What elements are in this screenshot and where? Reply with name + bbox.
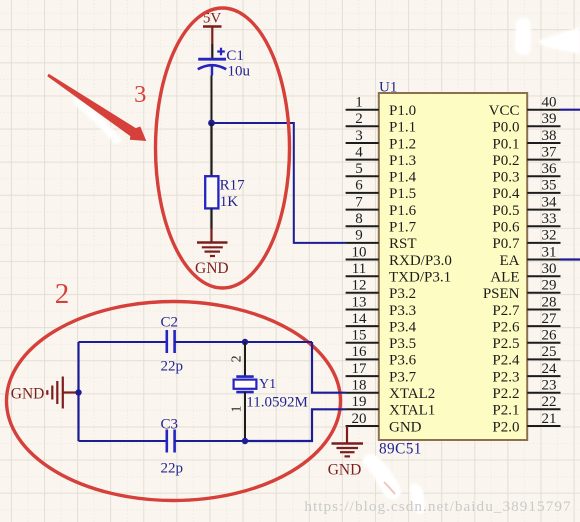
wire R17 to ground xyxy=(210,208,212,230)
U1 pin 30 (ALE) xyxy=(490,261,560,286)
svg-text:29: 29 xyxy=(542,278,557,294)
svg-text:38: 38 xyxy=(542,128,557,144)
svg-text:36: 36 xyxy=(542,161,558,177)
svg-text:2: 2 xyxy=(355,111,363,127)
svg-text:9: 9 xyxy=(355,228,363,244)
svg-text:RXD/P3.0: RXD/P3.0 xyxy=(389,253,452,269)
svg-text:3: 3 xyxy=(134,81,146,108)
node crystal top xyxy=(242,339,248,345)
svg-text:EA: EA xyxy=(500,253,520,269)
wire node A to R17 xyxy=(210,123,212,176)
svg-text:P1.2: P1.2 xyxy=(389,136,416,152)
svg-text:P0.7: P0.7 xyxy=(492,236,520,252)
wire top rail left xyxy=(79,341,167,343)
svg-text:P3.6: P3.6 xyxy=(389,353,417,369)
svg-text:P0.0: P0.0 xyxy=(492,120,519,136)
wire bottom rail left xyxy=(79,440,167,442)
U1 pin 31 (EA) xyxy=(500,244,561,269)
U1 pin 18 (XTAL2) xyxy=(346,378,436,403)
svg-text:P0.3: P0.3 xyxy=(492,170,519,186)
U1 pin 27 (P2.6) xyxy=(492,311,560,336)
wire crystal top lead xyxy=(244,342,246,376)
U1 pin 21 (P2.0) xyxy=(492,411,560,436)
svg-text:6: 6 xyxy=(355,178,363,194)
svg-text:22p: 22p xyxy=(161,358,184,374)
wire crystal bottom lead xyxy=(244,392,246,441)
wire bottom rail right xyxy=(175,440,245,442)
U1 pin 28 (P2.7) xyxy=(492,294,560,319)
U1 pin 2 (P1.1) xyxy=(346,111,416,136)
capacitor C3 22p xyxy=(161,417,184,477)
wire EA pin 31 xyxy=(561,258,580,260)
IC U1 89C51 body xyxy=(379,93,527,440)
svg-text:11.0592M: 11.0592M xyxy=(246,394,308,410)
U1 pin 24 (P2.3) xyxy=(492,361,560,386)
svg-text:P0.6: P0.6 xyxy=(492,220,520,236)
svg-text:GND: GND xyxy=(328,461,362,478)
svg-text:4: 4 xyxy=(355,144,363,160)
U1 pin 37 (P0.2) xyxy=(492,144,560,169)
svg-text:P1.4: P1.4 xyxy=(389,170,417,186)
svg-text:7: 7 xyxy=(355,194,363,210)
svg-text:P0.2: P0.2 xyxy=(492,153,519,169)
ground GND (left power ground) xyxy=(11,377,79,409)
svg-text:PSEN: PSEN xyxy=(483,286,520,302)
white highlight bottom arrow xyxy=(362,454,424,514)
U1 pin 23 (P2.2) xyxy=(492,378,560,403)
U1 pin 22 (P2.1) xyxy=(492,394,560,419)
svg-text:10u: 10u xyxy=(228,64,251,80)
svg-text:P1.6: P1.6 xyxy=(389,203,417,219)
U1 pin 9 (RST) xyxy=(346,228,417,253)
svg-text:24: 24 xyxy=(542,361,558,377)
svg-text:P0.5: P0.5 xyxy=(492,203,519,219)
U1 pin 12 (P3.2) xyxy=(346,278,416,303)
U1 pin 36 (P0.3) xyxy=(492,161,560,186)
node crystal bottom xyxy=(242,438,248,444)
U1 pin 29 (PSEN) xyxy=(483,278,561,303)
node A junction xyxy=(208,120,215,127)
U1 pin 3 (P1.2) xyxy=(346,128,416,153)
U1 pin 7 (P1.6) xyxy=(346,194,417,219)
svg-text:P1.0: P1.0 xyxy=(389,103,416,119)
svg-text:P1.1: P1.1 xyxy=(389,120,416,136)
svg-text:23: 23 xyxy=(542,378,557,394)
U1 pin 34 (P0.5) xyxy=(492,194,560,219)
svg-text:P1.7: P1.7 xyxy=(389,220,417,236)
svg-text:P3.2: P3.2 xyxy=(389,286,416,302)
svg-text:P2.7: P2.7 xyxy=(492,303,520,319)
svg-text:31: 31 xyxy=(542,244,557,260)
svg-text:28: 28 xyxy=(542,294,557,310)
svg-text:P2.4: P2.4 xyxy=(492,353,520,369)
svg-text:39: 39 xyxy=(542,111,557,127)
svg-text:35: 35 xyxy=(542,178,557,194)
U1 pin 13 (P3.3) xyxy=(346,294,416,319)
svg-text:GND: GND xyxy=(11,385,45,402)
U1 pin 10 (RXD/P3.0) xyxy=(346,244,452,269)
svg-text:2: 2 xyxy=(55,278,70,310)
svg-text:5: 5 xyxy=(355,161,363,177)
U1 pin 5 (P1.4) xyxy=(346,161,417,186)
ground GND (pin 20) xyxy=(328,426,363,478)
svg-text:11: 11 xyxy=(352,261,366,277)
svg-text:25: 25 xyxy=(542,344,557,360)
svg-text:C1: C1 xyxy=(226,48,244,64)
svg-text:GND: GND xyxy=(195,260,229,277)
annotation white swoosh xyxy=(77,101,117,140)
wire C1 to node A xyxy=(211,76,213,124)
U1 pin 8 (P1.7) xyxy=(346,211,417,236)
svg-text:P0.1: P0.1 xyxy=(492,136,519,152)
svg-text:27: 27 xyxy=(542,311,558,327)
U1 pin 20 (GND) xyxy=(346,411,422,436)
U1 pin 39 (P0.0) xyxy=(492,111,560,136)
U1 pin 25 (P2.4) xyxy=(492,344,560,369)
svg-text:https://blog.csdn.net/baidu_38: https://blog.csdn.net/baidu_38915797 xyxy=(304,498,571,515)
svg-text:P2.5: P2.5 xyxy=(492,336,519,352)
svg-text:1: 1 xyxy=(230,406,245,413)
orange dash in arrow xyxy=(384,482,395,494)
svg-text:2: 2 xyxy=(230,355,245,362)
svg-text:XTAL1: XTAL1 xyxy=(389,403,435,419)
svg-text:RST: RST xyxy=(389,236,417,252)
resistor R17 1K xyxy=(205,176,245,210)
svg-text:P3.5: P3.5 xyxy=(389,336,416,352)
U1 pin 6 (P1.5) xyxy=(346,178,416,203)
svg-text:10: 10 xyxy=(352,244,367,260)
svg-text:16: 16 xyxy=(352,344,368,360)
svg-text:1K: 1K xyxy=(220,194,239,210)
svg-text:P2.0: P2.0 xyxy=(492,419,519,435)
U1 pin 35 (P0.4) xyxy=(492,178,560,203)
svg-text:26: 26 xyxy=(542,328,558,344)
wire 5V to C1 xyxy=(211,44,213,58)
svg-text:13: 13 xyxy=(352,294,367,310)
wire node A to RST corner xyxy=(212,123,346,243)
svg-text:22: 22 xyxy=(542,394,557,410)
svg-text:TXD/P3.1: TXD/P3.1 xyxy=(389,270,451,286)
svg-text:12: 12 xyxy=(352,278,367,294)
U1 pin 26 (P2.5) xyxy=(492,328,560,353)
svg-text:21: 21 xyxy=(542,411,557,427)
wire left riser xyxy=(77,342,79,441)
U1 pin 16 (P3.6) xyxy=(346,344,417,369)
U1 pin 17 (P3.7) xyxy=(346,361,417,386)
svg-text:19: 19 xyxy=(352,394,367,410)
U1 pin 33 (P0.6) xyxy=(492,211,560,236)
svg-text:P3.4: P3.4 xyxy=(389,319,417,335)
U1 pin 14 (P3.4) xyxy=(346,311,417,336)
U1 pin 4 (P1.3) xyxy=(346,144,416,169)
svg-text:P0.4: P0.4 xyxy=(492,186,520,202)
svg-text:3: 3 xyxy=(355,128,363,144)
node GND junction xyxy=(75,389,81,395)
annotation red arrow xyxy=(47,74,146,141)
U1 pin 40 (VCC) xyxy=(489,95,561,120)
svg-text:33: 33 xyxy=(542,211,557,227)
svg-text:C2: C2 xyxy=(161,315,179,331)
svg-text:40: 40 xyxy=(542,95,557,111)
svg-text:34: 34 xyxy=(542,194,558,210)
svg-text:89C51: 89C51 xyxy=(379,440,422,457)
annotation ellipse 2 xyxy=(7,302,341,501)
svg-text:P1.3: P1.3 xyxy=(389,153,416,169)
U1 pin 1 (P1.0) xyxy=(346,95,416,120)
svg-text:20: 20 xyxy=(352,411,367,427)
svg-text:18: 18 xyxy=(352,378,367,394)
U1 pin 38 (P0.1) xyxy=(492,128,560,153)
wire VCC pin 40 xyxy=(561,109,580,111)
svg-text:VCC: VCC xyxy=(489,103,520,119)
ground GND (reset) xyxy=(195,228,229,277)
wire XTAL1 connection xyxy=(245,409,346,441)
wire XTAL2 connection xyxy=(312,342,346,393)
white highlight top right xyxy=(515,18,580,56)
svg-text:P2.6: P2.6 xyxy=(492,319,520,335)
svg-text:P1.5: P1.5 xyxy=(389,186,416,202)
svg-text:30: 30 xyxy=(542,261,557,277)
svg-text:1: 1 xyxy=(355,95,363,111)
svg-text:37: 37 xyxy=(542,144,558,160)
svg-text:GND: GND xyxy=(389,419,422,435)
svg-text:ALE: ALE xyxy=(490,270,519,286)
svg-text:P2.2: P2.2 xyxy=(492,386,519,402)
svg-text:17: 17 xyxy=(352,361,368,377)
U1 pin 32 (P0.7) xyxy=(492,228,560,253)
svg-text:15: 15 xyxy=(352,328,367,344)
svg-text:P2.1: P2.1 xyxy=(492,403,519,419)
svg-text:32: 32 xyxy=(542,228,557,244)
svg-text:XTAL2: XTAL2 xyxy=(389,386,435,402)
wire top rail right xyxy=(175,341,312,343)
crystal Y1 11.0592M xyxy=(234,377,308,411)
capacitor C2 22p xyxy=(161,315,184,375)
svg-text:P2.3: P2.3 xyxy=(492,369,519,385)
U1 pin 15 (P3.5) xyxy=(346,328,416,353)
power 5V xyxy=(203,11,222,45)
svg-text:8: 8 xyxy=(355,211,363,227)
svg-text:P3.3: P3.3 xyxy=(389,303,416,319)
svg-text:Y1: Y1 xyxy=(259,377,276,392)
capacitor C1 10u xyxy=(198,48,251,80)
svg-text:14: 14 xyxy=(352,311,368,327)
svg-text:22p: 22p xyxy=(161,460,184,476)
U1 pin 11 (TXD/P3.1) xyxy=(346,261,451,286)
svg-text:P3.7: P3.7 xyxy=(389,369,417,385)
svg-text:R17: R17 xyxy=(220,178,246,194)
U1 pin 19 (XTAL1) xyxy=(346,394,436,419)
annotation ellipse 3 xyxy=(156,8,290,288)
